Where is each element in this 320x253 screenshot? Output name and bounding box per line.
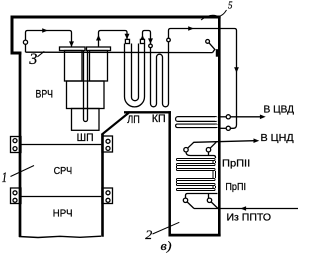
burner circles left lower — [13, 191, 17, 195]
reheater join right 5-6 — [213, 186, 216, 188]
svg-text:ПрПI: ПрПI — [225, 181, 246, 193]
conv shaft left wall thick — [168, 111, 171, 236]
node KP inlet circle C2 — [149, 44, 153, 48]
furnace left wall upper thick — [11, 16, 14, 55]
node circle C8 — [206, 148, 210, 152]
arrow Iz PPTO — [240, 206, 246, 211]
platen SH box level3 — [72, 109, 100, 131]
svg-text:НРЧ: НРЧ — [53, 208, 73, 220]
arrow down into KP inlet — [148, 38, 153, 43]
platen SH box level1 right — [90, 51, 108, 82]
svg-text:КП: КП — [152, 113, 166, 125]
furnace right wall thick — [101, 134, 104, 237]
reheater I bar5 — [176, 183, 216, 186]
arrow down on loop4 drop — [234, 67, 239, 73]
LP inlet header square — [125, 39, 129, 43]
wire HP steam stub upper — [220, 116, 227, 118]
wire VCND from C8 — [210, 142, 216, 148]
arrow up on loop2 — [96, 35, 101, 41]
gas duct bottom edge — [124, 111, 171, 113]
reheater II bar1 — [176, 158, 216, 161]
arrow down into left plate — [69, 41, 74, 47]
reheater join right 3-4 — [213, 171, 216, 178]
reheater II bar2 — [176, 163, 216, 166]
node circle C1 — [23, 40, 27, 44]
burner box left upper — [11, 137, 22, 153]
svg-text:СРЧ: СРЧ — [54, 165, 73, 177]
wire C1 to ceiling — [25, 44, 27, 52]
wire loop3 LP to KP — [143, 31, 151, 44]
arrow down into LP inlet — [125, 34, 130, 39]
arrow VCVD — [260, 115, 266, 120]
leader for 1 — [11, 166, 35, 177]
collector plate right — [87, 47, 111, 51]
arrow right on loop4 — [188, 26, 194, 31]
platen SH central hairpin tube — [84, 51, 88, 122]
svg-text:2: 2 — [145, 228, 152, 242]
KP serpentine — [151, 42, 169, 107]
reheater join left 2-3 — [176, 166, 178, 168]
collector plate left — [60, 47, 86, 51]
wire to VCVD arrow — [230, 116, 261, 118]
wire HP steam stub lower — [220, 127, 227, 129]
reheater II bar3 — [176, 168, 216, 171]
conv shaft right wall thick — [218, 16, 221, 237]
reheater I bar4 — [176, 178, 216, 181]
leader for 5 — [201, 10, 227, 20]
LP hairpin inner — [132, 44, 139, 101]
boiler top edge thick — [11, 16, 221, 19]
svg-text:ШП: ШП — [77, 132, 94, 144]
wire ceiling hook to header — [209, 43, 215, 53]
LP hairpin outer — [125, 44, 145, 107]
svg-text:ВРЧ: ВРЧ — [36, 88, 54, 100]
gas duct diagonal — [102, 112, 130, 135]
furnace left wall lower thick — [19, 52, 22, 238]
arrow right on loop1 — [42, 28, 48, 33]
node circle C5 — [226, 126, 230, 130]
wire Iz PPTO pipe — [194, 208, 298, 210]
svg-text:3: 3 — [28, 51, 37, 68]
wire loop1 drum feed — [26, 31, 72, 47]
node circle C6 — [226, 115, 230, 119]
burner circles right upper — [106, 139, 110, 143]
leader for 3 — [37, 51, 44, 57]
node header circle C4 — [206, 40, 210, 44]
svg-text:ПрПII: ПрПII — [222, 157, 250, 169]
wire C9 to inlet pipe — [187, 202, 194, 209]
svg-text:в): в) — [161, 239, 172, 253]
wire loop2 plate to LP — [99, 31, 128, 48]
reheater I bar6 — [176, 188, 216, 191]
svg-text:5: 5 — [228, 0, 233, 11]
output coil bar1 — [175, 116, 218, 122]
wire C8 tail — [208, 152, 210, 156]
reheater join right 1-2 — [213, 161, 216, 163]
node circle C10 — [207, 198, 211, 202]
svg-text:1: 1 — [2, 170, 8, 186]
node circle C7 — [184, 148, 188, 152]
LP outlet header square — [140, 39, 144, 43]
wire C10 riser — [208, 194, 210, 199]
wire reheater II outlet manifold — [186, 152, 216, 158]
wire reheater I inlet line — [186, 194, 218, 199]
furnace zone line lower — [21, 196, 101, 198]
furnace bottom — [19, 236, 101, 237]
burner circles right lower — [106, 191, 110, 195]
svg-text:В ЦВД: В ЦВД — [264, 103, 295, 115]
leader for 2 — [153, 222, 180, 234]
arrow up on loop3 — [140, 35, 145, 41]
platen SH box level2 — [67, 81, 105, 109]
wire ceiling line W1 — [26, 51, 213, 53]
furnace left wall step — [11, 52, 22, 55]
conv shaft bottom thick — [169, 234, 221, 237]
wire C10 to inlet pipe — [211, 202, 218, 209]
output coil bar2 — [175, 124, 218, 129]
burner box right upper — [102, 136, 113, 152]
svg-text:Из ППТО: Из ППТО — [227, 211, 272, 223]
wire VCND from C7 — [188, 141, 255, 149]
platen SH box level1 left — [65, 51, 83, 82]
svg-text:В ЦНД: В ЦНД — [261, 132, 294, 144]
furnace zone line upper — [21, 144, 101, 146]
reheater join left 4-5 — [176, 181, 178, 183]
wire loop4 KP exit to reheat drop — [169, 29, 237, 129]
burner box left lower — [11, 188, 22, 204]
burner box right lower — [102, 188, 113, 204]
node circle C9 — [183, 198, 187, 202]
right wall notch — [216, 49, 218, 57]
arrow VCND — [254, 138, 260, 143]
burner circles left upper — [13, 139, 17, 143]
node KP outlet circle C3 — [167, 38, 171, 42]
svg-text:ЛП: ЛП — [127, 114, 140, 126]
